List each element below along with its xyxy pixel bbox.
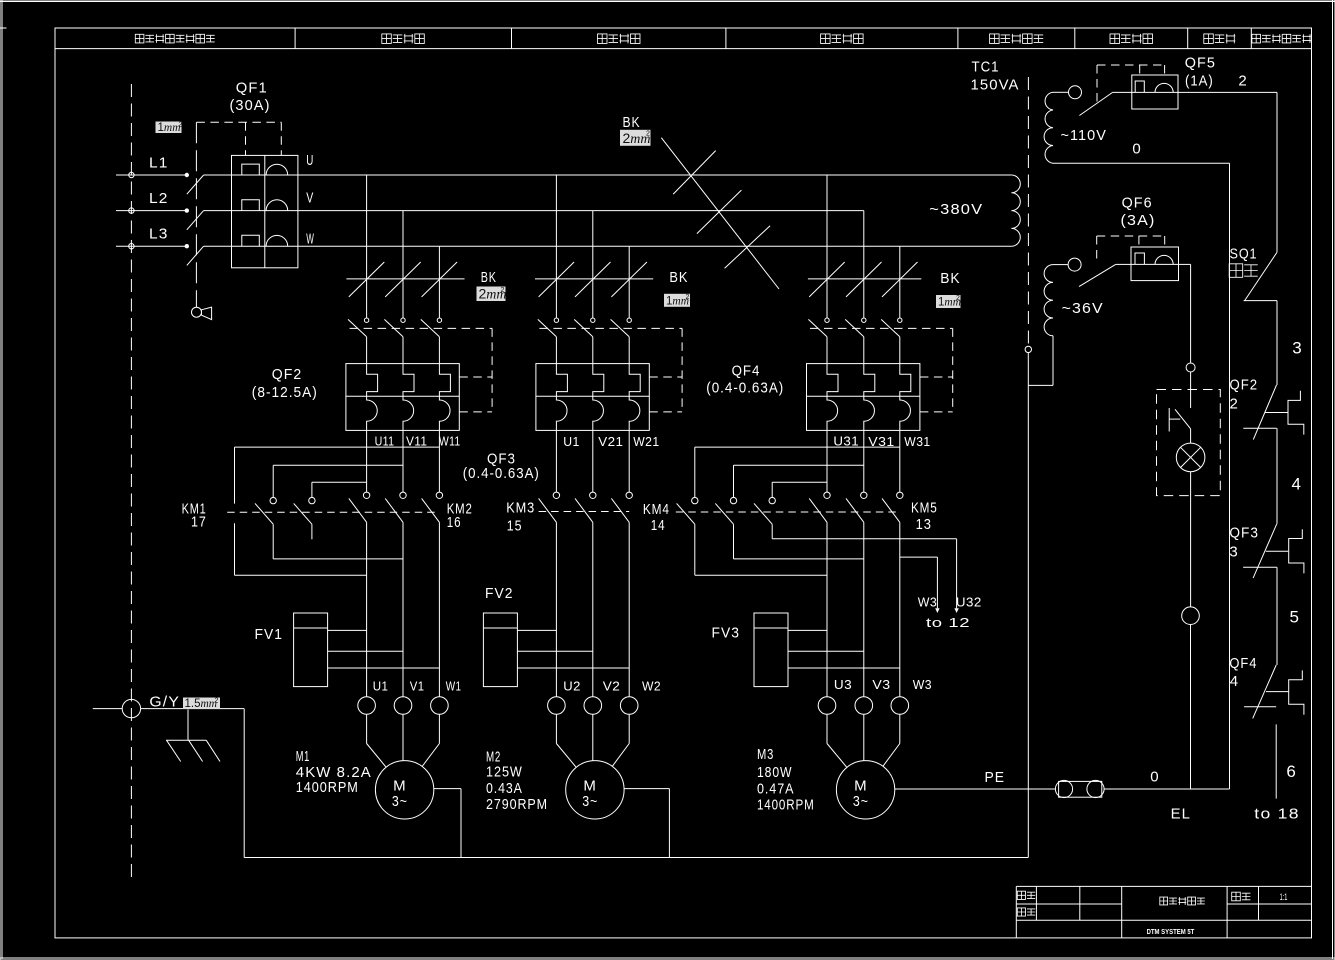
label QF5 xyxy=(1185,55,1216,72)
wire 36V winding to QF6 xyxy=(1053,264,1068,266)
label terminal V1 xyxy=(410,679,425,693)
svg-text:W1: W1 xyxy=(446,679,462,693)
label terminal W21 xyxy=(633,435,659,449)
label terminal V3 xyxy=(872,678,890,692)
wire G/Y conductor xyxy=(93,708,244,710)
label KM3 line number 15 xyxy=(507,518,523,535)
motor M2 body xyxy=(566,761,624,819)
lamp EL symbol xyxy=(1176,443,1205,472)
label QF4 aux xyxy=(1229,655,1257,672)
svg-text:EL: EL xyxy=(1171,806,1191,823)
label node 4 xyxy=(1292,475,1303,494)
wire lamp to lower connector xyxy=(1190,472,1192,607)
svg-text:180W: 180W xyxy=(757,764,792,781)
title block label zhitu xyxy=(1017,891,1035,899)
terminal link XT body xyxy=(1059,781,1102,797)
label node 3 xyxy=(1292,339,1303,358)
label KM1 line number 17 xyxy=(191,514,207,531)
contactor KM1 pole 3 xyxy=(294,482,315,539)
contactor KM4 pole 1 xyxy=(677,497,698,575)
svg-text:BK: BK xyxy=(669,269,688,286)
svg-text:(0.4-0.63A): (0.4-0.63A) xyxy=(463,465,540,482)
wire branch1 motor line V xyxy=(402,522,404,696)
label FV1 xyxy=(255,626,284,643)
label BK branch2 xyxy=(669,269,688,286)
label QF2 aux line 2 xyxy=(1230,396,1239,413)
wire branch3 crossover bottom to U xyxy=(695,574,827,576)
label M3 power 180W xyxy=(757,764,792,781)
cable mark BK main tick 1 xyxy=(673,151,716,195)
label terminal W3 xyxy=(913,678,932,692)
svg-text:QF1: QF1 xyxy=(236,80,268,97)
cable mark BK main tick 3 xyxy=(725,226,771,269)
header column separator xyxy=(511,28,513,49)
svg-text:14: 14 xyxy=(651,517,666,534)
contactor KM3 pole 3 xyxy=(611,430,632,522)
label QF3 xyxy=(487,451,516,468)
label BK branch3 xyxy=(940,270,961,287)
wire branch3 motor line V xyxy=(863,522,865,696)
label KM5 xyxy=(911,500,938,517)
wire branch3 motor line U xyxy=(826,522,828,696)
svg-text:QF4: QF4 xyxy=(732,363,761,380)
wire QF6 blade to body xyxy=(1116,263,1131,265)
cable mark BK branch1 xyxy=(346,262,464,297)
svg-text:1400RPM: 1400RPM xyxy=(757,797,815,814)
svg-text:0.43A: 0.43A xyxy=(486,780,523,797)
supply boundary dashed line xyxy=(130,84,132,878)
svg-text:U11: U11 xyxy=(375,435,395,449)
wire earth bus bottom xyxy=(244,857,1028,859)
svg-text:(0.4-0.63A): (0.4-0.63A) xyxy=(706,380,784,397)
svg-text:QF2: QF2 xyxy=(1230,377,1259,394)
node earth terminal G/Y xyxy=(122,699,140,717)
svg-text:QF5: QF5 xyxy=(1185,55,1216,72)
arrow U32 to line 12 xyxy=(954,608,958,613)
svg-text:6: 6 xyxy=(1286,762,1297,781)
wire branch2 U drop xyxy=(555,175,557,318)
label M2 speed 2790RPM xyxy=(486,796,548,813)
svg-text:3~: 3~ xyxy=(853,793,869,810)
label QF5 rating (1A) xyxy=(1185,73,1214,90)
wire branch1 motor line U xyxy=(366,522,368,696)
thermal relay FV2 heater taps xyxy=(517,630,629,668)
label bus voltage ~380V xyxy=(929,201,983,218)
header label 照明灯 xyxy=(1204,34,1236,44)
svg-text:U1: U1 xyxy=(373,679,389,693)
breaker QF2 linkage dashed xyxy=(350,328,493,412)
node QF1 fixed contact L3 xyxy=(185,244,189,248)
svg-text:U31: U31 xyxy=(833,435,859,449)
transformer TC1 core dashed xyxy=(1027,77,1029,346)
motor M3 phase mark 3~ xyxy=(853,793,869,810)
label QF2 aux xyxy=(1230,377,1259,394)
svg-text:U2: U2 xyxy=(563,680,581,694)
wire branch1 crossover top U11 xyxy=(312,481,367,483)
header column separator xyxy=(1074,28,1076,49)
svg-text:U3: U3 xyxy=(834,678,852,692)
wire bus W xyxy=(298,245,1012,247)
svg-text:2: 2 xyxy=(686,294,690,301)
label node 0 (right) xyxy=(1150,769,1159,786)
label terminal V31 xyxy=(868,435,894,449)
label SQ1 door (cemen) xyxy=(1229,264,1258,278)
wire branch1 U drop xyxy=(366,175,368,318)
svg-text:M: M xyxy=(583,777,597,794)
wire branch2 V drop xyxy=(592,211,594,318)
label QF4 xyxy=(732,363,761,380)
label KM5 line number 13 xyxy=(916,516,932,533)
wire PE from M3 xyxy=(895,788,1056,790)
svg-text:W3: W3 xyxy=(913,678,932,692)
transformer TC1 36V secondary winding xyxy=(1044,265,1053,336)
svg-text:BK: BK xyxy=(481,269,497,286)
label terminal W31 xyxy=(904,435,930,449)
label M1 xyxy=(296,748,310,765)
svg-text:2790RPM: 2790RPM xyxy=(486,796,548,813)
cable mark BK main diagonal xyxy=(661,138,779,289)
motor M1 body xyxy=(375,761,433,819)
lamp switch SA xyxy=(1169,390,1190,444)
label QF6 rating (3A) xyxy=(1121,212,1156,229)
label KM4 xyxy=(643,501,670,518)
label KM2 xyxy=(447,501,473,518)
svg-text:U: U xyxy=(306,152,314,169)
svg-text:1:1: 1:1 xyxy=(1280,892,1288,902)
wire branch3 V drop xyxy=(863,211,865,318)
header row divider xyxy=(55,48,1312,50)
cable mark BK main tick 2 xyxy=(697,190,742,234)
title block project DTM SYSTEM 5T xyxy=(1147,927,1195,936)
contactor KM2 pole 2 xyxy=(385,430,406,522)
svg-text:QF4: QF4 xyxy=(1229,655,1257,672)
wire bus V xyxy=(298,210,864,212)
wire 110V winding to QF5 xyxy=(1053,91,1069,93)
svg-text:SQ1: SQ1 xyxy=(1230,246,1258,263)
svg-text:4: 4 xyxy=(1292,475,1303,494)
breaker QF2 pole contacts xyxy=(348,318,442,364)
breaker QF5 blade xyxy=(1079,92,1112,115)
svg-text:PE: PE xyxy=(985,769,1006,786)
label terminal U3 xyxy=(834,678,852,692)
contactor KM5 pole 3 xyxy=(882,430,903,522)
contactor KM5 pole 2 xyxy=(846,430,867,522)
svg-text:(8-12.5A): (8-12.5A) xyxy=(252,384,318,401)
title block label jiaohe xyxy=(1017,908,1035,916)
wire branch3 crossover top U31 xyxy=(772,481,827,483)
svg-text:2: 2 xyxy=(501,287,505,294)
wire TC1 core to earth bus xyxy=(1027,353,1029,858)
label destination to 18 xyxy=(1254,806,1300,823)
svg-text:3: 3 xyxy=(1229,544,1238,561)
wire branch2 motor line U xyxy=(555,522,557,696)
wire rail segment node 5 xyxy=(1276,567,1278,665)
svg-text:V1: V1 xyxy=(410,679,425,693)
label QF1 xyxy=(236,80,268,97)
svg-text:V11: V11 xyxy=(406,435,427,449)
label terminal W11 xyxy=(439,435,461,449)
label L1 xyxy=(149,155,169,172)
svg-text:M1: M1 xyxy=(296,748,310,765)
svg-text:2: 2 xyxy=(179,122,183,129)
wire branch1 W drop xyxy=(438,246,440,318)
label terminal W1 xyxy=(446,679,462,693)
label wire size 1.5mm2 xyxy=(183,698,220,711)
svg-text:0: 0 xyxy=(1150,769,1159,786)
svg-text:1.5mm: 1.5mm xyxy=(185,698,218,710)
label QF3 aux line 3 xyxy=(1229,544,1238,561)
label QF4 aux line 4 xyxy=(1230,673,1239,690)
svg-text:BK: BK xyxy=(940,270,961,287)
label terminal V21 xyxy=(598,435,623,449)
label wire size 1mm2 branch2 xyxy=(664,294,690,308)
label wire size 2mm2 branch1 xyxy=(477,286,507,303)
contactor KM4 linkage dashed xyxy=(676,511,900,513)
label QF3 rating (0.4-0.63A) xyxy=(463,465,540,482)
breaker QF3 pole contacts xyxy=(538,318,632,364)
label QF2 rating (8-12.5A) xyxy=(252,384,318,401)
label phase V xyxy=(306,190,314,207)
svg-text:W2: W2 xyxy=(642,680,661,694)
motor M3 terminal circles xyxy=(818,697,908,715)
header label 冷却电机 xyxy=(598,34,641,44)
breaker QF1 thermal and magnetic elements xyxy=(232,164,298,246)
wire branch3 W drop xyxy=(899,246,901,318)
wire branch3 motor line W xyxy=(899,522,901,696)
thermal relay FV3 body xyxy=(754,613,788,687)
svg-text:~36V: ~36V xyxy=(1062,300,1104,317)
label L3 xyxy=(149,226,169,243)
breaker QF6 blade xyxy=(1079,264,1116,286)
node TC1 core earth terminal xyxy=(1025,346,1031,352)
label M3 xyxy=(757,746,774,763)
label phase U xyxy=(306,152,314,169)
svg-text:13: 13 xyxy=(916,516,932,533)
svg-text:to 18: to 18 xyxy=(1254,806,1300,823)
svg-text:W11: W11 xyxy=(439,435,461,449)
contactor KM4 pole 3 xyxy=(754,482,775,539)
label KM4 line number 14 xyxy=(651,517,666,534)
label node U32 xyxy=(956,596,982,610)
svg-text:KM5: KM5 xyxy=(911,500,938,517)
breaker QF5 body xyxy=(1132,75,1178,109)
label phase W xyxy=(306,230,314,247)
breaker QF2 body xyxy=(346,364,459,431)
label QF4 rating (0.4-0.63A) xyxy=(706,380,784,397)
header column separator xyxy=(957,28,959,49)
wire node 0 right rail xyxy=(1229,163,1231,789)
wire branch1 motor line W xyxy=(438,522,440,696)
svg-text:L3: L3 xyxy=(149,226,169,243)
wire supply L2 xyxy=(116,210,187,212)
wire rail segment node 6 xyxy=(1275,724,1277,798)
label wire size 1mm2 (supply) xyxy=(156,122,183,134)
label EL xyxy=(1171,806,1191,823)
svg-text:V: V xyxy=(306,190,314,207)
label PE xyxy=(985,769,1006,786)
label node 6 xyxy=(1286,762,1297,781)
breaker QF4 linkage dashed xyxy=(810,328,953,412)
label TC1 rating 150VA xyxy=(971,77,1020,94)
label M1 power 4KW 8.2A xyxy=(296,764,372,781)
svg-text:KM3: KM3 xyxy=(506,500,535,517)
lamp fixture enclosure dashed xyxy=(1157,390,1221,496)
svg-text:QF2: QF2 xyxy=(272,366,303,383)
label QF2 xyxy=(272,366,303,383)
breaker QF1 linkage dashed xyxy=(195,122,197,307)
svg-text:TC1: TC1 xyxy=(972,59,1000,76)
label wire size 1mm2 branch3 xyxy=(936,295,961,309)
label SQ1 xyxy=(1230,246,1258,263)
motor M1 phase mark 3~ xyxy=(392,793,408,810)
header label 侧门及热保护 xyxy=(1252,34,1311,43)
label ~36V xyxy=(1062,300,1104,317)
motor M3 terminal leads xyxy=(827,714,900,767)
svg-text:W21: W21 xyxy=(633,435,659,449)
svg-text:2: 2 xyxy=(215,698,219,705)
wire bus U xyxy=(298,174,1012,176)
header label 主轴电机 xyxy=(382,34,425,44)
thermal relay FV2 body xyxy=(483,613,517,687)
svg-text:W: W xyxy=(306,230,314,247)
svg-text:V3: V3 xyxy=(872,678,890,692)
contactor KM1 linkage dashed xyxy=(227,511,439,513)
header column separator xyxy=(1187,28,1189,49)
breaker QF3 linkage dashed xyxy=(539,328,682,412)
motor M2 letter M xyxy=(583,777,597,794)
node lamp connector upper xyxy=(1186,363,1195,372)
label M3 current 0.47A xyxy=(757,780,794,797)
wire rail segment node 3 xyxy=(1276,301,1278,385)
wire branch2 W drop xyxy=(628,246,630,318)
contactor KM4 pole 2 xyxy=(715,465,736,559)
limit switch SQ1 contact xyxy=(1244,252,1277,301)
svg-text:L1: L1 xyxy=(149,155,169,172)
motor M2 terminal leads xyxy=(556,714,629,767)
node lamp connector lower xyxy=(1182,607,1200,625)
wire supply L3 xyxy=(116,245,187,247)
wire supply L1 xyxy=(116,174,187,176)
label terminal U2 xyxy=(563,680,581,694)
svg-text:15: 15 xyxy=(507,518,523,535)
contactor KM3 pole 1 xyxy=(539,430,560,522)
breaker QF5 pivot terminal xyxy=(1069,86,1082,99)
svg-text:~110V: ~110V xyxy=(1061,127,1107,144)
motor M1 terminal leads xyxy=(367,714,440,767)
svg-text:QF6: QF6 xyxy=(1122,195,1153,212)
wire branch1 crossover bottom to U xyxy=(235,574,367,576)
label ~110V xyxy=(1061,127,1107,144)
cable mark BK branch3 xyxy=(808,262,921,297)
svg-text:2: 2 xyxy=(1238,73,1247,90)
earth electrode symbol xyxy=(166,710,220,762)
wire branch3 tap U32 to line 12 xyxy=(772,539,956,608)
label terminal W2 xyxy=(642,680,661,694)
label destination to 12 xyxy=(926,616,970,630)
wire 36V winding bottom to earth xyxy=(1028,336,1053,386)
wire lamp return xyxy=(1190,625,1192,790)
svg-text:to 12: to 12 xyxy=(926,616,970,630)
svg-text:2: 2 xyxy=(956,295,960,302)
wire G/Y to earth bus xyxy=(243,709,245,858)
breaker QF3 body xyxy=(536,364,649,431)
wire branch1 crossover bottom to V xyxy=(273,558,403,560)
header label 控制变压器 xyxy=(990,34,1044,44)
node supply terminal L3 xyxy=(129,244,134,249)
svg-text:DTM SYSTEM 5T: DTM SYSTEM 5T xyxy=(1147,927,1195,936)
svg-text:QF3: QF3 xyxy=(1229,525,1259,542)
label QF6 xyxy=(1122,195,1153,212)
wire branch3 U drop xyxy=(826,175,828,318)
label QF3 aux xyxy=(1229,525,1259,542)
svg-text:~380V: ~380V xyxy=(929,201,983,218)
label node 2 xyxy=(1238,73,1247,90)
label M2 power 125W xyxy=(486,764,523,781)
label QF1 rating (30A) xyxy=(230,97,271,114)
contactor KM1 pole 1 (gap) xyxy=(234,523,236,575)
wire branch1 crossover top V11 xyxy=(273,464,403,466)
svg-text:(1A): (1A) xyxy=(1185,73,1214,90)
header column separator xyxy=(1250,28,1252,49)
svg-text:V2: V2 xyxy=(603,680,621,694)
breaker QF1 pole blades xyxy=(187,175,232,265)
breaker QF6 enclosure dashed xyxy=(1097,236,1165,261)
svg-text:FV1: FV1 xyxy=(255,626,284,643)
header label 短路保护 xyxy=(1110,34,1153,44)
svg-text:M: M xyxy=(393,777,407,794)
contactor KM3 pole 2 xyxy=(575,430,596,522)
label KM2 line number 16 xyxy=(447,514,462,531)
wire QF5 blade to body xyxy=(1113,91,1132,93)
svg-text:125W: 125W xyxy=(486,764,523,781)
contactor KM1 pole 2 xyxy=(255,465,276,559)
svg-text:KM4: KM4 xyxy=(643,501,670,518)
breaker QF2 auxiliary contact xyxy=(1243,385,1304,440)
header column separator xyxy=(725,28,727,49)
motor M1 terminal circles xyxy=(358,697,448,715)
label M1 speed 1400RPM xyxy=(296,779,359,796)
thermal relay FV1 body xyxy=(294,613,328,687)
header label 刀架电机 xyxy=(821,34,864,44)
breaker QF4 pole contacts xyxy=(808,318,902,364)
label G/Y xyxy=(149,694,180,711)
svg-text:17: 17 xyxy=(191,514,207,531)
cable mark BK branch2 xyxy=(535,262,653,297)
wire rail segment node 4 xyxy=(1276,428,1278,524)
header column separator xyxy=(294,28,296,49)
label FV3 xyxy=(712,625,741,642)
svg-text:0: 0 xyxy=(1132,141,1141,158)
wire branch3 crossover top V31 xyxy=(734,464,864,466)
breaker QF6 pivot terminal xyxy=(1068,258,1081,271)
label KM3 xyxy=(506,500,535,517)
motor M3 body xyxy=(836,761,894,819)
contactor KM3 linkage dashed xyxy=(539,511,630,513)
wire node 2 to right rail xyxy=(1178,92,1277,252)
svg-text:W31: W31 xyxy=(904,435,930,449)
label BK branch1 xyxy=(481,269,497,286)
svg-text:U1: U1 xyxy=(563,435,579,449)
breaker QF1 enclosure dashed xyxy=(196,122,281,155)
contactor KM2 pole 3 xyxy=(422,430,443,522)
label terminal U1 (branch2) xyxy=(563,435,579,449)
arrow W3 to line 12 xyxy=(935,608,939,613)
breaker QF4 auxiliary contact xyxy=(1244,665,1304,718)
svg-text:FV2: FV2 xyxy=(485,585,514,602)
node QF1 fixed contact L1 xyxy=(185,173,189,177)
svg-text:3~: 3~ xyxy=(582,793,598,810)
svg-text:(30A): (30A) xyxy=(230,97,271,114)
